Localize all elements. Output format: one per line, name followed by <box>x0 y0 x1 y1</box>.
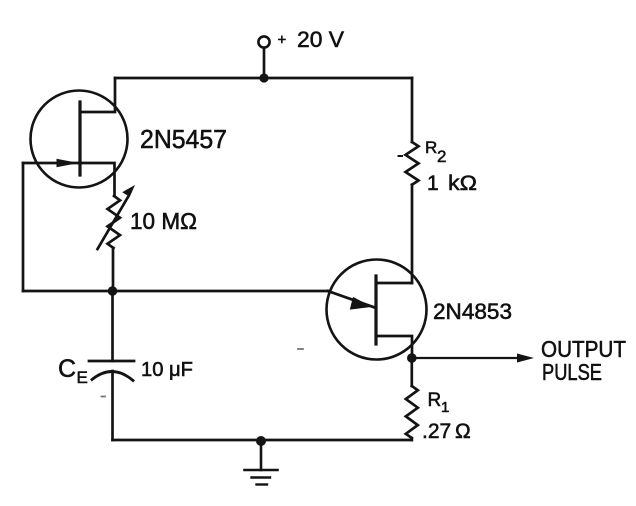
svg-text:Ω: Ω <box>455 420 471 443</box>
rheostat arrow <box>98 197 129 249</box>
svg-text:2N5457: 2N5457 <box>140 124 227 154</box>
transistor Q2 gate arrow <box>350 297 372 310</box>
transistor Q1 2N5457 <box>31 91 128 188</box>
wire supply stub <box>263 48 266 78</box>
wire gate bus <box>23 290 328 293</box>
svg-text:.27: .27 <box>422 420 451 443</box>
node gate bus junction <box>108 286 118 296</box>
stray mark below CE <box>102 396 106 398</box>
wire node to capacitor <box>111 291 114 361</box>
svg-text:1: 1 <box>427 172 439 195</box>
svg-text:PULSE: PULSE <box>542 359 602 385</box>
transistor Q1 channel bar <box>78 102 81 175</box>
capacitor CE top plate <box>89 360 134 363</box>
transistor Q2 channel bar <box>374 276 377 344</box>
wire Q2 gate lead <box>328 291 376 308</box>
svg-text:R: R <box>425 138 437 157</box>
wire rheostat to node <box>112 248 115 291</box>
stray mark left of Q2 <box>298 348 303 350</box>
wire Q2 drain lead <box>376 282 412 285</box>
transistor Q1 gate arrow <box>57 159 79 167</box>
wire Q1 drain to rail <box>81 78 115 112</box>
svg-text:10 MΩ: 10 MΩ <box>130 208 197 234</box>
wire output node to R1 <box>410 358 413 386</box>
svg-text:2: 2 <box>437 147 446 166</box>
wire output <box>412 357 519 359</box>
wire R2 to Q2 drain <box>411 185 414 283</box>
wire capacitor to bottom rail <box>111 371 114 440</box>
supply terminal +20V <box>258 36 269 47</box>
wire Q2 source lead <box>376 336 412 358</box>
node ground junction <box>256 436 266 446</box>
wire top rail <box>115 77 412 80</box>
wire R1 to bottom rail <box>410 438 413 440</box>
svg-text:2N4853: 2N4853 <box>433 299 512 324</box>
svg-text:1: 1 <box>441 399 449 416</box>
capacitor CE bottom plate <box>92 371 133 380</box>
wire bottom rail <box>113 439 412 442</box>
svg-text:E: E <box>77 368 88 387</box>
svg-text:10 μF: 10 μF <box>141 359 193 381</box>
resistor R1 <box>406 386 418 438</box>
wire rail to R2 <box>411 78 414 142</box>
output arrowhead <box>517 354 534 363</box>
stray mark near R2 <box>399 155 403 157</box>
svg-text:kΩ: kΩ <box>448 172 477 195</box>
svg-text:C: C <box>58 355 76 383</box>
svg-text:R: R <box>428 390 442 411</box>
wire Q1 gate lead <box>23 162 80 165</box>
svg-text:+: + <box>278 32 287 49</box>
ground <box>245 441 278 485</box>
node supply junction <box>259 73 268 82</box>
node output junction <box>407 353 417 363</box>
wire Q1 source lead <box>80 163 115 196</box>
resistor R2 <box>406 142 419 185</box>
resistor 10 Mohm rheostat <box>108 196 121 248</box>
wire gate left drop <box>22 163 25 291</box>
svg-text:20 V: 20 V <box>297 27 344 52</box>
transistor Q2 2N4853 <box>327 260 427 360</box>
